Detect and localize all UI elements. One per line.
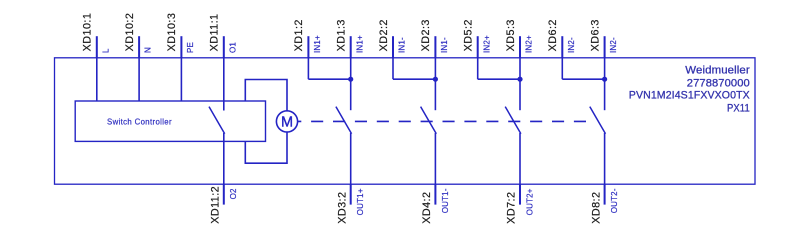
svg-text:XD10:1: XD10:1 xyxy=(82,13,94,52)
svg-text:XD7:2: XD7:2 xyxy=(506,192,518,224)
terminal XD1:2 stub xyxy=(307,36,309,58)
terminal XD3:2 stub xyxy=(350,184,352,204)
switch controller U1 xyxy=(75,101,265,141)
terminal XD11:2 stub xyxy=(223,184,225,204)
terminal XD6:3 stub xyxy=(604,36,606,58)
terminal XD10:1 stub xyxy=(96,36,98,58)
wire O1 to controller switch xyxy=(223,58,225,111)
svg-text:IN1-: IN1- xyxy=(440,37,449,53)
wire to switch top contact xyxy=(519,58,521,110)
terminal XD8:2 stub xyxy=(604,184,606,204)
svg-text:M: M xyxy=(281,115,293,131)
wire motor return loop (bottom) xyxy=(245,121,287,163)
switch blade xyxy=(505,107,521,134)
input drop wire xyxy=(561,58,563,79)
wire controller to motor loop (top) xyxy=(245,80,287,122)
svg-text:XD5:3: XD5:3 xyxy=(505,19,517,51)
motor M1 xyxy=(276,111,297,132)
svg-text:Weidmueller: Weidmueller xyxy=(685,65,750,77)
wire to switch top contact xyxy=(604,58,606,110)
bridge wire xyxy=(478,78,520,80)
svg-text:PVN1M2I4S1FXVXO0TX: PVN1M2I4S1FXVXO0TX xyxy=(629,90,751,102)
terminal XD6:2 stub xyxy=(561,36,563,58)
wire to switch top contact xyxy=(434,58,436,110)
wire N xyxy=(138,58,140,101)
svg-text:IN2-: IN2- xyxy=(609,37,618,53)
wire switch to output terminal xyxy=(604,133,606,184)
svg-text:XD4:2: XD4:2 xyxy=(421,192,433,224)
svg-text:OUT1-: OUT1- xyxy=(441,188,450,213)
wire L xyxy=(96,58,98,101)
svg-text:XD3:2: XD3:2 xyxy=(336,192,348,224)
wire PE xyxy=(180,58,182,101)
svg-text:OUT2-: OUT2- xyxy=(610,188,619,213)
svg-text:XD1:2: XD1:2 xyxy=(293,19,305,51)
terminal XD1:3 stub xyxy=(350,36,352,58)
terminal XD2:2 stub xyxy=(392,36,394,58)
svg-text:L: L xyxy=(101,48,110,53)
svg-text:XD1:3: XD1:3 xyxy=(336,19,348,51)
wire switch to output terminal xyxy=(434,133,436,184)
wire controller switch to XD11:2 xyxy=(223,133,225,184)
svg-text:IN2+: IN2+ xyxy=(482,35,491,53)
input drop wire xyxy=(392,58,394,79)
switch blade xyxy=(590,107,606,134)
terminal XD4:2 stub xyxy=(434,184,436,204)
mechanical linkage dashed line xyxy=(289,120,587,122)
svg-text:PE: PE xyxy=(186,42,195,53)
junction dot xyxy=(517,77,522,82)
junction dot xyxy=(348,77,353,82)
svg-text:Switch Controller: Switch Controller xyxy=(107,118,172,127)
input drop wire xyxy=(307,58,309,79)
svg-text:IN1+: IN1+ xyxy=(355,35,364,53)
enclosure outline xyxy=(55,58,756,184)
svg-text:PX11: PX11 xyxy=(727,102,750,114)
terminal XD10:3 stub xyxy=(180,36,182,58)
svg-text:OUT1+: OUT1+ xyxy=(356,188,365,215)
svg-text:2778870000: 2778870000 xyxy=(687,77,750,89)
terminal XD7:2 stub xyxy=(519,184,521,204)
svg-text:XD10:3: XD10:3 xyxy=(166,13,178,52)
svg-text:XD6:3: XD6:3 xyxy=(589,19,601,51)
wire switch to output terminal xyxy=(350,133,352,184)
terminal XD5:2 stub xyxy=(477,36,479,58)
svg-text:XD11:1: XD11:1 xyxy=(209,13,221,51)
junction dot xyxy=(602,77,607,82)
bridge wire xyxy=(393,78,435,80)
switch blade xyxy=(421,107,437,134)
svg-text:XD2:2: XD2:2 xyxy=(378,19,390,51)
terminal XD5:3 stub xyxy=(519,36,521,58)
bridge wire xyxy=(308,78,350,80)
svg-text:IN1-: IN1- xyxy=(398,37,407,53)
wire switch to output terminal xyxy=(519,133,521,184)
terminal XD11:1 stub xyxy=(223,36,225,58)
svg-text:XD6:2: XD6:2 xyxy=(547,19,559,51)
bridge wire xyxy=(562,78,604,80)
svg-text:O1: O1 xyxy=(228,42,237,53)
wire to switch top contact xyxy=(350,58,352,110)
svg-text:IN2-: IN2- xyxy=(567,37,576,53)
svg-text:XD11:2: XD11:2 xyxy=(210,186,222,224)
svg-text:XD8:2: XD8:2 xyxy=(590,192,602,224)
terminal XD10:2 stub xyxy=(138,36,140,58)
svg-text:XD5:2: XD5:2 xyxy=(463,19,475,51)
junction dot xyxy=(433,77,438,82)
svg-text:XD2:3: XD2:3 xyxy=(420,19,432,51)
svg-text:N: N xyxy=(144,47,153,53)
svg-text:XD10:2: XD10:2 xyxy=(124,13,136,52)
svg-text:OUT2+: OUT2+ xyxy=(525,188,534,215)
svg-text:IN2+: IN2+ xyxy=(525,35,534,53)
switch blade xyxy=(336,107,352,134)
terminal XD2:3 stub xyxy=(434,36,436,58)
input drop wire xyxy=(477,58,479,79)
svg-text:O2: O2 xyxy=(229,188,238,199)
svg-text:IN1+: IN1+ xyxy=(313,35,322,53)
controller switch contact blade xyxy=(209,107,225,134)
